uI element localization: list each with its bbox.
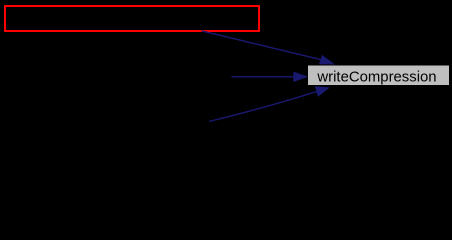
edge E2 arrowhead <box>293 72 308 83</box>
node N2: writeCompression (gray filled box) <box>308 66 449 86</box>
edge E1 arrowhead <box>319 55 335 65</box>
node N1: current function (red highlighted box, label hidden) <box>5 6 259 31</box>
edge E2: horizontal wire from hidden caller to writeCompression <box>231 76 293 78</box>
svg-text:writeCompression: writeCompression <box>316 69 436 85</box>
edge E3 arrowhead <box>315 86 330 97</box>
edge E1: wire from red node down to writeCompression <box>201 31 320 60</box>
edge E3: rising wire from hidden caller below to writeCompression <box>209 92 316 122</box>
